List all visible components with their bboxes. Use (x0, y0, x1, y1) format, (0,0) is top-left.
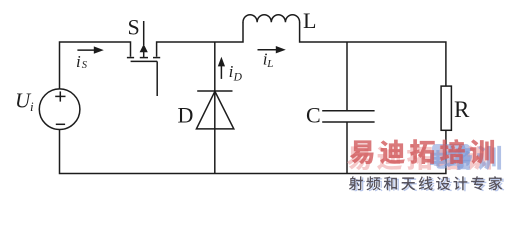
watermark: blue box behind third-from-right character (432, 144, 470, 166)
resistor R : rectangle body (441, 86, 451, 130)
voltage source Ui (circle) (39, 89, 80, 130)
transistor S : channel/gate bar (131, 60, 158, 62)
label D (diode) (178, 102, 194, 127)
label L (inductor) (303, 8, 316, 33)
wire: diode branch vertical (214, 42, 216, 174)
wire: top rail middle segment (switch to inductor) (157, 22, 243, 57)
transistor S : middle lead with gate line (140, 21, 148, 58)
wire: bottom rail (60, 130, 446, 174)
svg-text:L: L (303, 8, 316, 33)
svg-text:S: S (128, 15, 140, 40)
svg-text:D: D (233, 72, 243, 84)
wire: top rail right segment (inductor to resistor) (300, 22, 446, 86)
label S (switch) (128, 15, 140, 40)
arrow iS (current into switch) (77, 46, 103, 53)
transistor S : gate stub going down (156, 61, 158, 96)
watermark: blue ghost characters (430, 145, 501, 170)
arrow iD (diode current, pointing up) (218, 57, 225, 79)
transistor S : right contact (inverted T) (153, 57, 160, 59)
capacitor C : top plate and lead (322, 42, 374, 111)
svg-text:L: L (266, 58, 273, 70)
watermark: subtitle blue ghost (351, 177, 504, 191)
diode D : triangle (196, 91, 233, 129)
watermark: pink ghost text line (347, 145, 491, 170)
watermark: main red text line (350, 139, 494, 164)
inductor L : coil (243, 15, 300, 23)
watermark: subtitle text (349, 176, 502, 190)
transistor S : left contact (inverted T) (127, 57, 134, 59)
label C (capacitor) (306, 102, 321, 127)
svg-text:i: i (30, 99, 34, 114)
svg-text:D: D (178, 102, 194, 127)
svg-text:R: R (454, 97, 470, 122)
label iL (inductor current) (263, 49, 274, 70)
label is (source current) (76, 52, 88, 71)
transistor S : arrow (filled) (140, 44, 148, 52)
diode D : cathode bar (197, 90, 232, 92)
wire: top rail left segment (source to switch) (60, 42, 131, 89)
label R (resistor) (454, 97, 470, 122)
arrow iL (inductor current) (258, 46, 286, 53)
plus mark inside source (55, 91, 65, 101)
svg-text:i: i (76, 52, 81, 71)
label iD (diode current) (229, 62, 243, 84)
svg-text:S: S (82, 60, 88, 71)
label Ui (15, 89, 34, 115)
capacitor C : bottom plate and lead (322, 122, 374, 174)
svg-text:C: C (306, 102, 321, 127)
minus mark inside source (56, 123, 65, 125)
